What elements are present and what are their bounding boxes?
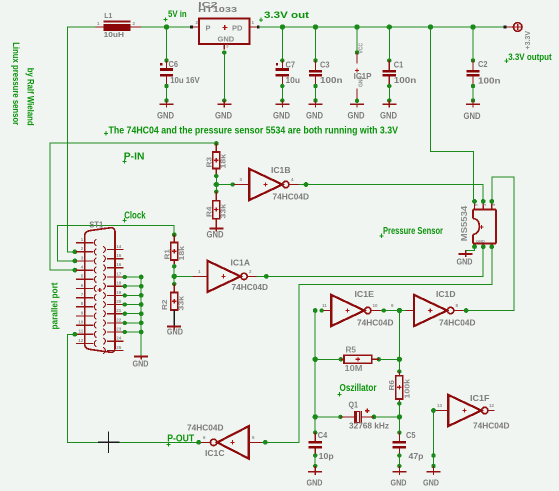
svg-text:C6: C6 [169,59,179,69]
svg-text:C5: C5 [406,430,416,440]
wire junction to IC1A input [174,275,207,277]
svg-text:74HC04D: 74HC04D [273,192,310,202]
svg-text:Linux pressure sensor: Linux pressure sensor [11,42,21,125]
svg-text:6: 6 [203,435,206,440]
wire pin 18 to ground bus [123,284,144,289]
wire pin 17 to ground bus [123,275,144,280]
wire IC1A output to sensor DIN bottom pin [257,247,484,279]
node R3 bottom / R4 top / IC1B input junction [214,174,219,194]
pin 7 (left) of ST1 [76,292,96,301]
resistor R2 (33k) [160,284,186,311]
node port pin3 dot [73,259,78,264]
svg-text:1: 1 [81,237,84,242]
svg-text:PD: PD [232,24,243,33]
label Pressure Sensor [379,226,443,238]
wire pin 23 to ground bus [123,330,144,335]
svg-text:9: 9 [391,303,394,308]
wire IC1E output to IC1D input [380,303,414,313]
wire 3.3V output rail [259,26,506,28]
ground below sensor [457,251,473,267]
ground below ST1 bus [133,357,149,369]
pin 14 (right) of ST1 [103,244,123,253]
svg-text:Q1: Q1 [349,401,359,410]
svg-text:33k: 33k [219,203,228,218]
svg-text:22: 22 [116,317,122,322]
op-amp inverter IC1E 74HC04D [322,289,394,327]
wire sensor DOUT to IC1C input [262,247,492,445]
wire pin 19 to ground bus [123,293,144,298]
svg-text:8: 8 [456,303,459,308]
svg-text:17: 17 [116,271,122,276]
pin 1 (left) of ST1 [76,237,96,246]
svg-text:10u 16V: 10u 16V [170,75,200,85]
svg-text:3: 3 [240,177,243,182]
wire IC1B output to sensor DIN top pin [299,182,484,201]
svg-text:74HC04D: 74HC04D [473,421,510,431]
svg-text:1: 1 [198,269,201,274]
ground below C5 [391,472,407,488]
svg-text:GND: GND [476,239,485,244]
capacitor C5 (47p) [393,430,424,472]
svg-text:GND: GND [359,76,365,88]
svg-text:10p: 10p [319,451,334,461]
svg-text:7: 7 [81,292,84,297]
svg-text:L1: L1 [104,13,112,20]
svg-text:10: 10 [78,320,84,325]
ground below IC2 [215,104,232,120]
resistor R3 (18k) [205,144,228,177]
wire rail to pressure sensor VCC pin [431,27,474,201]
node sensor bottom pin dots [472,244,494,249]
svg-text:11: 11 [322,303,327,308]
op-amp inverter IC1A 74HC04D [198,257,268,292]
pin 18 (right) of ST1 [103,281,123,290]
node R1 bottom / R2 top / IC1A input junction [172,264,177,286]
svg-text:33k: 33k [177,295,186,310]
node rail junction C1 [387,24,392,29]
op-amp inverter IC1F 74HC04D [436,393,510,431]
svg-text:GND: GND [457,256,473,266]
pin 25 (right) of ST1 [103,345,123,354]
svg-text:P-OUT: P-OUT [167,434,195,445]
svg-text:19: 19 [116,290,122,295]
svg-text:12: 12 [78,338,84,343]
pin 24 (right) of ST1 [103,336,123,345]
svg-text:2: 2 [81,246,84,251]
wire L1 to IC2 input [141,26,191,28]
pin 2 (left) of ST1 [76,246,96,255]
pin stubs of MS5534 [474,201,496,246]
svg-text:10: 10 [373,303,379,308]
svg-text:100n: 100n [478,76,501,86]
svg-text:100n: 100n [394,75,417,85]
wire P-IN net from port pin 4 to R3 [50,143,216,270]
node rail junction C2 [470,24,475,29]
output terminal +3.3V [504,23,532,50]
svg-text:Oszillator: Oszillator [340,383,377,394]
wire sensor ground pin to GND [466,247,475,252]
svg-text:25: 25 [116,345,122,350]
node IC1C output dot [196,440,201,445]
wire junction to IC1B input [216,182,249,186]
pin 8 (left) of ST1 [76,301,96,310]
ground below C4 [307,472,323,488]
ground below IC1P [348,104,365,120]
svg-text:9: 9 [81,310,84,315]
svg-text:1: 1 [252,20,255,25]
svg-text:32768 kHz: 32768 kHz [349,421,389,431]
connector ST1 parallel port DB25 [85,221,115,353]
svg-text:GND: GND [215,111,232,121]
pin 21 (right) of ST1 [103,308,123,317]
node rail junction C7 [280,24,285,29]
ground below C7 [273,104,290,120]
op-amp inverter IC1B 74HC04D [240,165,310,202]
resistor R4 (33k) [205,192,228,229]
svg-text:5V in: 5V in [168,9,187,19]
node sensor top pin dots [472,199,494,204]
svg-text:R4: R4 [205,206,214,217]
note text both running with 3.3V [104,126,398,137]
node +5V junction [164,24,169,29]
pin 19 (right) of ST1 [103,290,123,299]
svg-text:11: 11 [79,329,84,334]
label 3.3V output [504,52,551,63]
svg-text:GND: GND [273,111,290,121]
wire R5 feedback row [313,357,403,362]
svg-text:100k: 100k [403,378,412,398]
op-amp inverter IC1C 74HC04D (mirrored) [187,423,262,459]
svg-text:C2: C2 [478,59,488,69]
resistor R6 (100k) [387,369,412,405]
svg-text:18k: 18k [219,153,228,168]
svg-text:GND: GND [307,478,323,488]
wire Clock net from port pin 3 to R1 [58,226,175,261]
svg-text:13: 13 [437,403,443,408]
svg-text:23: 23 [116,326,122,331]
svg-text:GND: GND [380,111,397,121]
svg-text:47p: 47p [409,451,424,461]
svg-text:R2: R2 [160,300,169,311]
label P-OUT [166,434,194,447]
svg-text:GND: GND [157,111,174,121]
svg-text:GND: GND [423,478,439,488]
wire IC2 ground pin to GND [222,50,226,104]
svg-text:Clock: Clock [124,211,146,222]
svg-text:GND: GND [133,359,149,369]
node rail junction sensor feed [428,24,433,29]
svg-text:4: 4 [291,177,294,182]
inductor L1 [96,13,142,39]
capacitor C7 (10u) [276,27,300,104]
svg-text:18k: 18k [177,245,186,260]
wire oscillator right column upper [398,311,400,372]
node port pin11 dot [73,332,78,337]
pin 17 (right) of ST1 [103,271,123,280]
resistor R5 (10M) [341,345,379,373]
svg-text:by Ralf Wieland: by Ralf Wieland [26,68,36,126]
junction cross on P-OUT wire [98,432,120,453]
ground below C3 [306,104,323,120]
svg-text:100n: 100n [320,75,343,85]
pressure sensor MS5534 body [460,205,496,243]
wire P-OUT net from IC1C output to port pin 11 [68,334,201,442]
crystal Q1 32768 kHz [340,401,389,431]
ground below C6 [157,104,174,120]
ground below C1 [380,104,397,120]
label Clock [122,211,146,223]
wire +5V from parallel port pin 2 up left side to L1 [68,27,96,252]
svg-text:3: 3 [81,255,84,260]
label parallel port [50,283,60,330]
wire sensor SCLK pin to IC1D output [466,177,514,311]
svg-text:Pressure Sensor: Pressure Sensor [383,226,443,237]
node rail junction C3 [313,24,318,29]
svg-text:P: P [206,24,211,33]
svg-text:74HC04D: 74HC04D [232,282,269,292]
svg-text:The 74HC04 and the pressure se: The 74HC04 and the pressure sensor 5534 … [109,126,399,137]
svg-text:5: 5 [252,435,255,440]
wire crystal row [313,414,403,419]
wire R2 to GND (black segment) [173,310,175,327]
resistor R1 (18k) [162,235,186,267]
svg-text:C1: C1 [394,60,404,70]
svg-text:GND: GND [391,478,407,488]
svg-text:10M: 10M [345,364,363,373]
node IC1E input dots [313,308,324,313]
svg-text:3.3V output: 3.3V output [508,52,552,62]
svg-text:24: 24 [116,336,122,341]
svg-text:21: 21 [116,308,122,313]
capacitor C4 (10p) [309,430,334,472]
svg-text:10uH: 10uH [104,32,124,39]
svg-text:2: 2 [133,21,136,26]
svg-text:74HC04D: 74HC04D [187,423,224,433]
svg-text:GND: GND [306,111,323,121]
op-amp inverter IC1D 74HC04D [414,289,475,327]
svg-text:74HC04D: 74HC04D [439,317,476,327]
pin 3 (left) of ST1 [76,255,96,264]
node port pin2 dot [73,249,78,254]
node P-IN corner dot [214,141,219,146]
capacitor C2 (100n) [466,27,500,104]
svg-text:14: 14 [116,244,122,249]
node rail junction IC1P [354,24,359,29]
svg-text:GND: GND [348,111,365,121]
svg-text:HT1033: HT1033 [198,7,237,14]
svg-text:74HC04D: 74HC04D [357,317,394,327]
voltage regulator IC2 HT1033 [191,2,259,50]
title text Linux pressure sensor [11,42,21,125]
wire oscillator left column [314,311,316,433]
svg-text:P-IN: P-IN [124,151,145,162]
svg-text:R5: R5 [346,345,357,354]
capacitor C1 (100n) [383,27,417,104]
wire oscillator right column lower [398,404,400,433]
label Oszillator [337,383,376,397]
svg-text:GND: GND [167,327,183,337]
svg-text:IC1D: IC1D [436,289,456,299]
svg-text:R6: R6 [387,380,396,391]
svg-text:IC1C: IC1C [205,448,225,458]
svg-text:GND: GND [207,230,224,240]
svg-text:1: 1 [97,21,100,26]
wire pin 22 to ground bus [123,321,144,326]
ground below R4 [207,229,224,240]
svg-text:IC1E: IC1E [355,289,375,299]
label +5V in [163,9,186,22]
svg-text:18: 18 [116,281,122,286]
pin 11 (left) of ST1 [76,329,96,338]
ground below IC1F input [423,472,441,488]
svg-text:C3: C3 [320,60,330,70]
pin 12 (left) of ST1 [76,338,96,347]
pin 15 (right) of ST1 [103,253,123,262]
capacitor C6 (10u 16V) [160,27,200,104]
pin 4 (left) of ST1 [76,265,96,274]
wire pin 21 to ground bus [123,311,144,316]
svg-text:3.3V out: 3.3V out [264,10,309,20]
svg-text:GND: GND [464,111,481,121]
label +3.3V out [259,10,309,22]
svg-text:12: 12 [489,403,495,408]
pin 20 (right) of ST1 [103,299,123,308]
svg-text:VCC: VCC [359,43,365,54]
svg-text:20: 20 [116,299,122,304]
svg-text:16: 16 [116,262,122,267]
pin 5 (left) of ST1 [76,274,96,283]
svg-text:+3.3V: +3.3V [525,31,532,50]
svg-text:IC1F: IC1F [470,393,490,403]
svg-text:2: 2 [249,269,252,274]
svg-text:parallel port: parallel port [50,283,60,330]
pin 9 (left) of ST1 [76,310,96,319]
svg-text:GND: GND [218,35,235,44]
pin 10 (left) of ST1 [76,320,96,329]
ground below C2 [464,104,481,121]
pin 23 (right) of ST1 [103,326,123,335]
svg-text:C7: C7 [286,60,296,70]
svg-text:C4: C4 [318,430,328,440]
wire pin 20 to ground bus [123,302,144,307]
wire IC1F input to GND [431,408,436,472]
svg-text:IC1A: IC1A [231,257,251,267]
ground below R2 [167,327,183,337]
svg-text:5: 5 [81,274,84,279]
svg-text:4: 4 [81,265,84,270]
svg-text:6: 6 [81,283,84,288]
node IC1D output dot [464,308,469,313]
pin 6 (left) of ST1 [76,283,96,292]
pin 22 (right) of ST1 [103,317,123,326]
node port pin4 dot [73,268,78,273]
wire ground bus of ST1 right pins [140,277,142,356]
svg-text:R3: R3 [205,157,214,168]
capacitor C3 (100n) [309,27,343,104]
pin 16 (right) of ST1 [103,262,123,271]
svg-text:R1: R1 [162,249,171,260]
label P-IN [122,151,144,163]
svg-text:IC1B: IC1B [271,165,291,175]
svg-text:8: 8 [81,301,84,306]
title text by Ralf Wieland [26,68,36,126]
node clock corner dot [172,232,177,237]
svg-text:15: 15 [116,253,122,258]
power pins IC1P (74HC04 supply) [354,27,372,103]
svg-text:10u: 10u [286,75,301,85]
svg-text:MS5534: MS5534 [460,205,469,241]
